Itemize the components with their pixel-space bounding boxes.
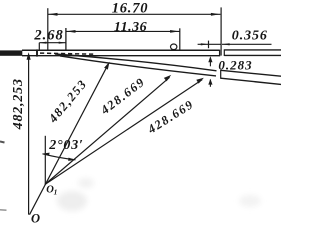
radius line A O to rail 482,253 <box>30 69 106 215</box>
diverging rail top edge curve <box>55 54 217 71</box>
angle extension line at O1 <box>44 136 46 185</box>
radius C arrowhead <box>196 78 204 84</box>
dimension 0.283 lower arrow <box>209 80 211 87</box>
radius B arrowhead <box>164 75 171 82</box>
scan noise dash left edge <box>0 142 5 143</box>
dimension 16.70 right extension line <box>220 7 222 55</box>
dimension 16.70 right arrowhead <box>211 13 220 16</box>
dimension 2.68 line <box>39 42 66 44</box>
svg-text:2.68: 2.68 <box>33 28 63 44</box>
radius line B 428.669 <box>45 77 170 184</box>
stock rail right end cap <box>219 50 221 57</box>
point circle on rail <box>171 44 177 50</box>
angle arc 2 deg 03 <box>43 154 76 160</box>
svg-text:1: 1 <box>54 188 58 197</box>
svg-text:0.283: 0.283 <box>218 57 252 72</box>
diverging rail right piece top <box>221 70 281 76</box>
svg-text:11.36: 11.36 <box>114 20 147 35</box>
radius vertical arrowhead <box>27 52 31 60</box>
svg-text:16.70: 16.70 <box>112 1 149 17</box>
svg-text:428.669: 428.669 <box>97 74 147 117</box>
stock rail main bar bottom edge <box>22 55 220 57</box>
stock rail main bar top edge <box>22 49 220 51</box>
dimension 0.356 left leader with arrow <box>198 43 221 45</box>
scan noise speckle near O1 <box>57 191 87 211</box>
dimension 11.36 right arrowhead <box>170 30 179 33</box>
svg-text:482,253: 482,253 <box>45 77 90 126</box>
svg-text:428.669: 428.669 <box>144 97 196 137</box>
angle arc left arrowhead <box>42 153 49 156</box>
radius line vertical 482,253 <box>28 59 30 215</box>
dimension 11.36 left arrowhead <box>66 30 75 33</box>
svg-text:482,253: 482,253 <box>11 78 26 130</box>
dimension 16.70 left extension line <box>47 8 49 50</box>
svg-text:O: O <box>31 212 40 226</box>
scan noise dash bottom left <box>0 209 7 211</box>
dimension 2.68 right arrowhead <box>59 42 66 44</box>
svg-text:2°03′: 2°03′ <box>48 138 84 153</box>
svg-text:0.356: 0.356 <box>232 29 268 44</box>
dimension 2.68 left arrowhead <box>40 42 47 44</box>
right stock rail bar bottom edge <box>224 54 281 56</box>
dimension 11.36 left extension corner <box>65 28 67 50</box>
diverging rail right piece cap <box>220 70 222 79</box>
switch blade dashed line <box>40 53 94 54</box>
dimension 0.356 left arrowhead <box>201 43 208 45</box>
dimension 16.70 left arrowhead <box>48 13 57 16</box>
dimension 0.283 upper arrow <box>209 58 211 67</box>
radius line C 428.669 <box>45 80 202 185</box>
diverging rail right piece bottom <box>221 78 281 84</box>
right stock rail left cap <box>223 49 225 56</box>
radius A arrowhead <box>104 62 110 70</box>
dimension 0.356 right leader <box>222 43 272 45</box>
dimension 11.36 right extension line <box>179 28 181 50</box>
dimension 0.356 tick <box>208 41 210 49</box>
stock rail left black segment <box>0 50 22 55</box>
diverging rail bottom edge curve <box>60 56 216 76</box>
dimension 16.70 line <box>48 13 220 15</box>
angle arc right arrowhead <box>68 158 76 161</box>
dimension 2.68 left tick extension <box>38 43 40 51</box>
dimension 0.356 right arrowhead <box>222 43 229 45</box>
dimension 11.36 line <box>66 30 180 32</box>
rail joint mark <box>36 49 38 56</box>
right stock rail bar top edge <box>224 49 281 51</box>
